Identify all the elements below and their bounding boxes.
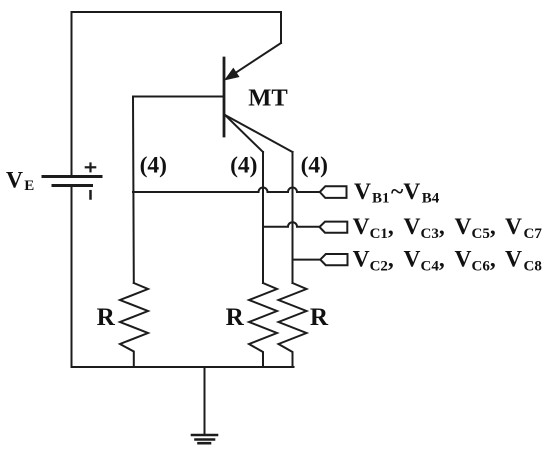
terminal V_C even connector (320, 254, 347, 265)
resistor R1 zigzag (120, 283, 148, 367)
resistor R3 zigzag (279, 283, 307, 367)
svg-text:R: R (310, 304, 329, 331)
wire branch 3 vertical (292, 152, 294, 283)
svg-text:(4): (4) (140, 152, 167, 178)
battery minus tick (89, 191, 92, 198)
ground bar 3 (199, 442, 211, 445)
svg-text:(4): (4) (301, 152, 328, 178)
svg-text:MT: MT (248, 85, 287, 112)
wire row 1 with hops (133, 188, 320, 193)
terminal V_B connector (320, 186, 347, 198)
resistor R2 zigzag (249, 283, 277, 367)
battery plus sign (86, 164, 95, 172)
wire left branch vertical (132, 97, 135, 284)
svg-text:R: R (226, 304, 245, 331)
wire branch 2 vertical (262, 152, 264, 283)
terminal V_C odd connector (320, 222, 348, 233)
wire bottom rail (72, 366, 294, 368)
wire base horizontal (133, 96, 224, 98)
wire collector diagonal 2 (225, 115, 293, 152)
transistor MT base bar (223, 58, 226, 136)
battery V_E bottom plate (53, 184, 92, 187)
wire row 2 with hop (263, 222, 320, 227)
transistor emitter arrowhead (226, 69, 239, 79)
wire top horizontal (72, 11, 282, 13)
svg-text:R: R (97, 304, 116, 331)
battery V_E top plate (43, 175, 101, 178)
wire collector diagonal 1 (225, 115, 263, 152)
svg-text:V: V (6, 167, 23, 193)
svg-text:(4): (4) (230, 152, 257, 178)
wire right vertical drop from top rail (280, 12, 282, 43)
wire emitter diagonal into transistor (233, 43, 281, 75)
label VC2 VC4 VC6 VC8 (353, 246, 542, 274)
wire left vertical upper (top to battery) (71, 12, 73, 175)
ground bar 1 (192, 434, 217, 437)
label VC1 VC3 VC5 VC7 (353, 214, 543, 242)
ground stem (204, 367, 206, 435)
wire row 3 (293, 259, 322, 261)
svg-text:E: E (24, 178, 34, 194)
wire left vertical lower (battery to bottom rail) (71, 187, 73, 367)
ground bar 2 (196, 438, 215, 441)
